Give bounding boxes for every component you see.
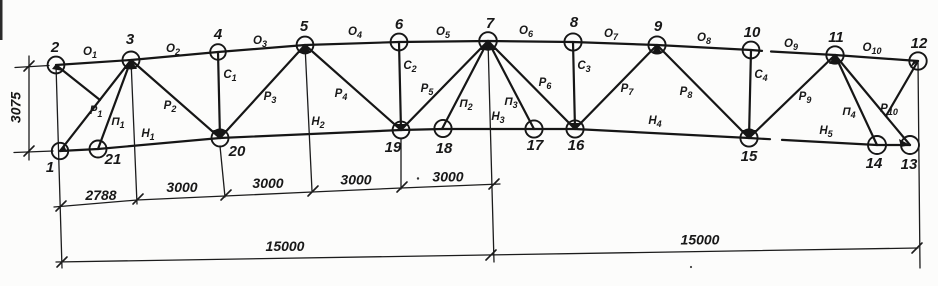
- row2 tick at 491: [486, 250, 496, 260]
- paper speck: [417, 177, 419, 179]
- extension line node19-dim: [400, 138, 402, 189]
- extension line node2-node1-dim: [56, 65, 62, 268]
- node 15 circle: [740, 129, 757, 146]
- svg-text:10: 10: [744, 24, 761, 41]
- post P2cyr (7-18): [442, 41, 488, 129]
- vertical C3 (8-16): [573, 42, 575, 129]
- svg-text:3: 3: [126, 31, 135, 48]
- node 6 circle: [391, 34, 408, 51]
- diagonal P6 (7-16): [488, 41, 575, 129]
- node 7 circle: [479, 32, 497, 50]
- ink blob at node 9: [652, 45, 662, 53]
- ink blob at node 2: [52, 64, 63, 71]
- svg-text:1: 1: [46, 159, 54, 176]
- left dim tick top: [24, 61, 34, 71]
- left dim extension bottom: [14, 151, 53, 153]
- ink blob at node 16: [569, 123, 581, 130]
- svg-text:18: 18: [436, 140, 453, 157]
- diagonal P3 (5-20): [220, 45, 305, 138]
- svg-text:3000: 3000: [340, 172, 371, 188]
- left dim vertical line 3075: [28, 56, 30, 160]
- svg-text:19: 19: [385, 139, 402, 156]
- extension line node7-dim: [488, 41, 494, 262]
- node 1 circle: [52, 143, 68, 159]
- node 2 circle: [48, 57, 65, 74]
- dimension line row1: [54, 184, 500, 207]
- row1 tick at 137: [133, 194, 143, 204]
- vertical C2 (6-19): [399, 42, 401, 130]
- row1 tick at 225: [221, 190, 231, 200]
- diagonal P7 (9-16): [575, 45, 657, 129]
- svg-text:16: 16: [568, 137, 585, 154]
- node 13 circle: [901, 136, 919, 154]
- vertical C4 (10-15): [749, 50, 751, 138]
- ink blob at node 20: [213, 130, 227, 139]
- svg-text:11: 11: [828, 29, 844, 46]
- ink blob at node 12: [910, 60, 918, 68]
- node 3 circle: [123, 52, 140, 69]
- row1 tick at 312: [308, 186, 318, 196]
- extension line node5-dim: [305, 45, 312, 191]
- svg-text:13: 13: [901, 156, 918, 173]
- diagonal P2 (3-20): [131, 60, 220, 138]
- row2 tick at 917: [912, 243, 922, 253]
- diagonal P5 (7-19): [401, 41, 488, 130]
- node 20 circle: [212, 130, 229, 147]
- node 19 circle: [393, 122, 410, 139]
- diagonal P4 (5-19): [305, 45, 401, 130]
- row2 tick at 62: [57, 257, 67, 267]
- row1 tick at 493: [489, 179, 499, 189]
- ink blob at node 7: [480, 40, 496, 50]
- post P_1 (21-3): [98, 60, 131, 149]
- node 8 circle: [564, 33, 581, 50]
- svg-text:5: 5: [300, 18, 309, 35]
- svg-text:3000: 3000: [166, 179, 197, 195]
- paper speck: [690, 266, 692, 268]
- ink blob at node 3: [124, 59, 137, 69]
- svg-text:3000: 3000: [252, 175, 283, 191]
- diagonal P1 (1-3): [60, 60, 131, 151]
- node 14 circle: [868, 136, 886, 154]
- diagonal P10 (11-13): [835, 55, 910, 145]
- node 17 circle: [525, 120, 542, 137]
- bottom chord 1-21-20-19-18-17-16-15: [60, 129, 770, 151]
- node 11 circle: [826, 46, 843, 63]
- node 18 circle: [434, 120, 451, 137]
- bottom chord segment 15-14-13 after gap: [782, 140, 910, 145]
- node 5 circle: [297, 37, 314, 54]
- ink blob at node 5: [299, 44, 311, 53]
- svg-text:15000: 15000: [266, 238, 305, 254]
- top chord 2-3-4-5-6-7-8-9-10-11-12: [56, 41, 762, 65]
- diagonal P8 (9-15): [657, 45, 749, 138]
- extension line node3-dim: [131, 60, 137, 204]
- svg-text:3000: 3000: [432, 169, 463, 185]
- svg-text:2788: 2788: [84, 187, 116, 203]
- dimension line row2: [56, 248, 918, 262]
- svg-text:20: 20: [228, 143, 246, 160]
- svg-text:2: 2: [50, 39, 60, 56]
- vertical C1 (4-20): [218, 52, 220, 138]
- ink blob at node 11: [829, 54, 842, 64]
- svg-text:21: 21: [104, 151, 122, 168]
- svg-text:4: 4: [213, 26, 223, 43]
- svg-text:15000: 15000: [681, 232, 720, 248]
- node 10 circle: [743, 42, 760, 59]
- top chord segment 10-11 after gap: [771, 52, 918, 62]
- svg-text:9: 9: [654, 18, 663, 35]
- ink blob at node 19: [395, 124, 407, 131]
- ink blob at node 13: [899, 139, 910, 147]
- extension line node12-dim: [918, 61, 920, 268]
- left dim tick bottom: [24, 146, 34, 156]
- svg-text:15: 15: [741, 148, 758, 165]
- svg-text:12: 12: [911, 35, 928, 52]
- scan edge artifact top-left: [0, 0, 3, 40]
- node 9 circle: [648, 36, 665, 53]
- node 21 circle: [90, 141, 107, 158]
- svg-text:7: 7: [486, 15, 495, 32]
- svg-text:3075: 3075: [8, 92, 24, 123]
- node 12 circle: [909, 52, 926, 69]
- ink blob at node 1: [60, 145, 67, 152]
- svg-text:14: 14: [866, 155, 883, 172]
- svg-text:8: 8: [570, 14, 579, 31]
- extension line node20-dim: [220, 146, 225, 197]
- node 16 circle: [566, 120, 583, 137]
- web diagonal from node 2: [56, 65, 100, 100]
- svg-text:6: 6: [395, 16, 404, 33]
- row1 tick at 60: [56, 201, 66, 211]
- svg-text:17: 17: [527, 137, 544, 154]
- node 4 circle: [210, 44, 226, 60]
- post P4cyr (11-14): [835, 55, 877, 145]
- row1 tick at 401: [397, 182, 407, 192]
- ink blob at node 15: [742, 130, 756, 139]
- web diagonal from node 12: [886, 61, 918, 116]
- post P3cyr (7-17): [488, 41, 534, 129]
- left dim extension top: [15, 66, 49, 68]
- diagonal P9 (11-15): [749, 55, 835, 138]
